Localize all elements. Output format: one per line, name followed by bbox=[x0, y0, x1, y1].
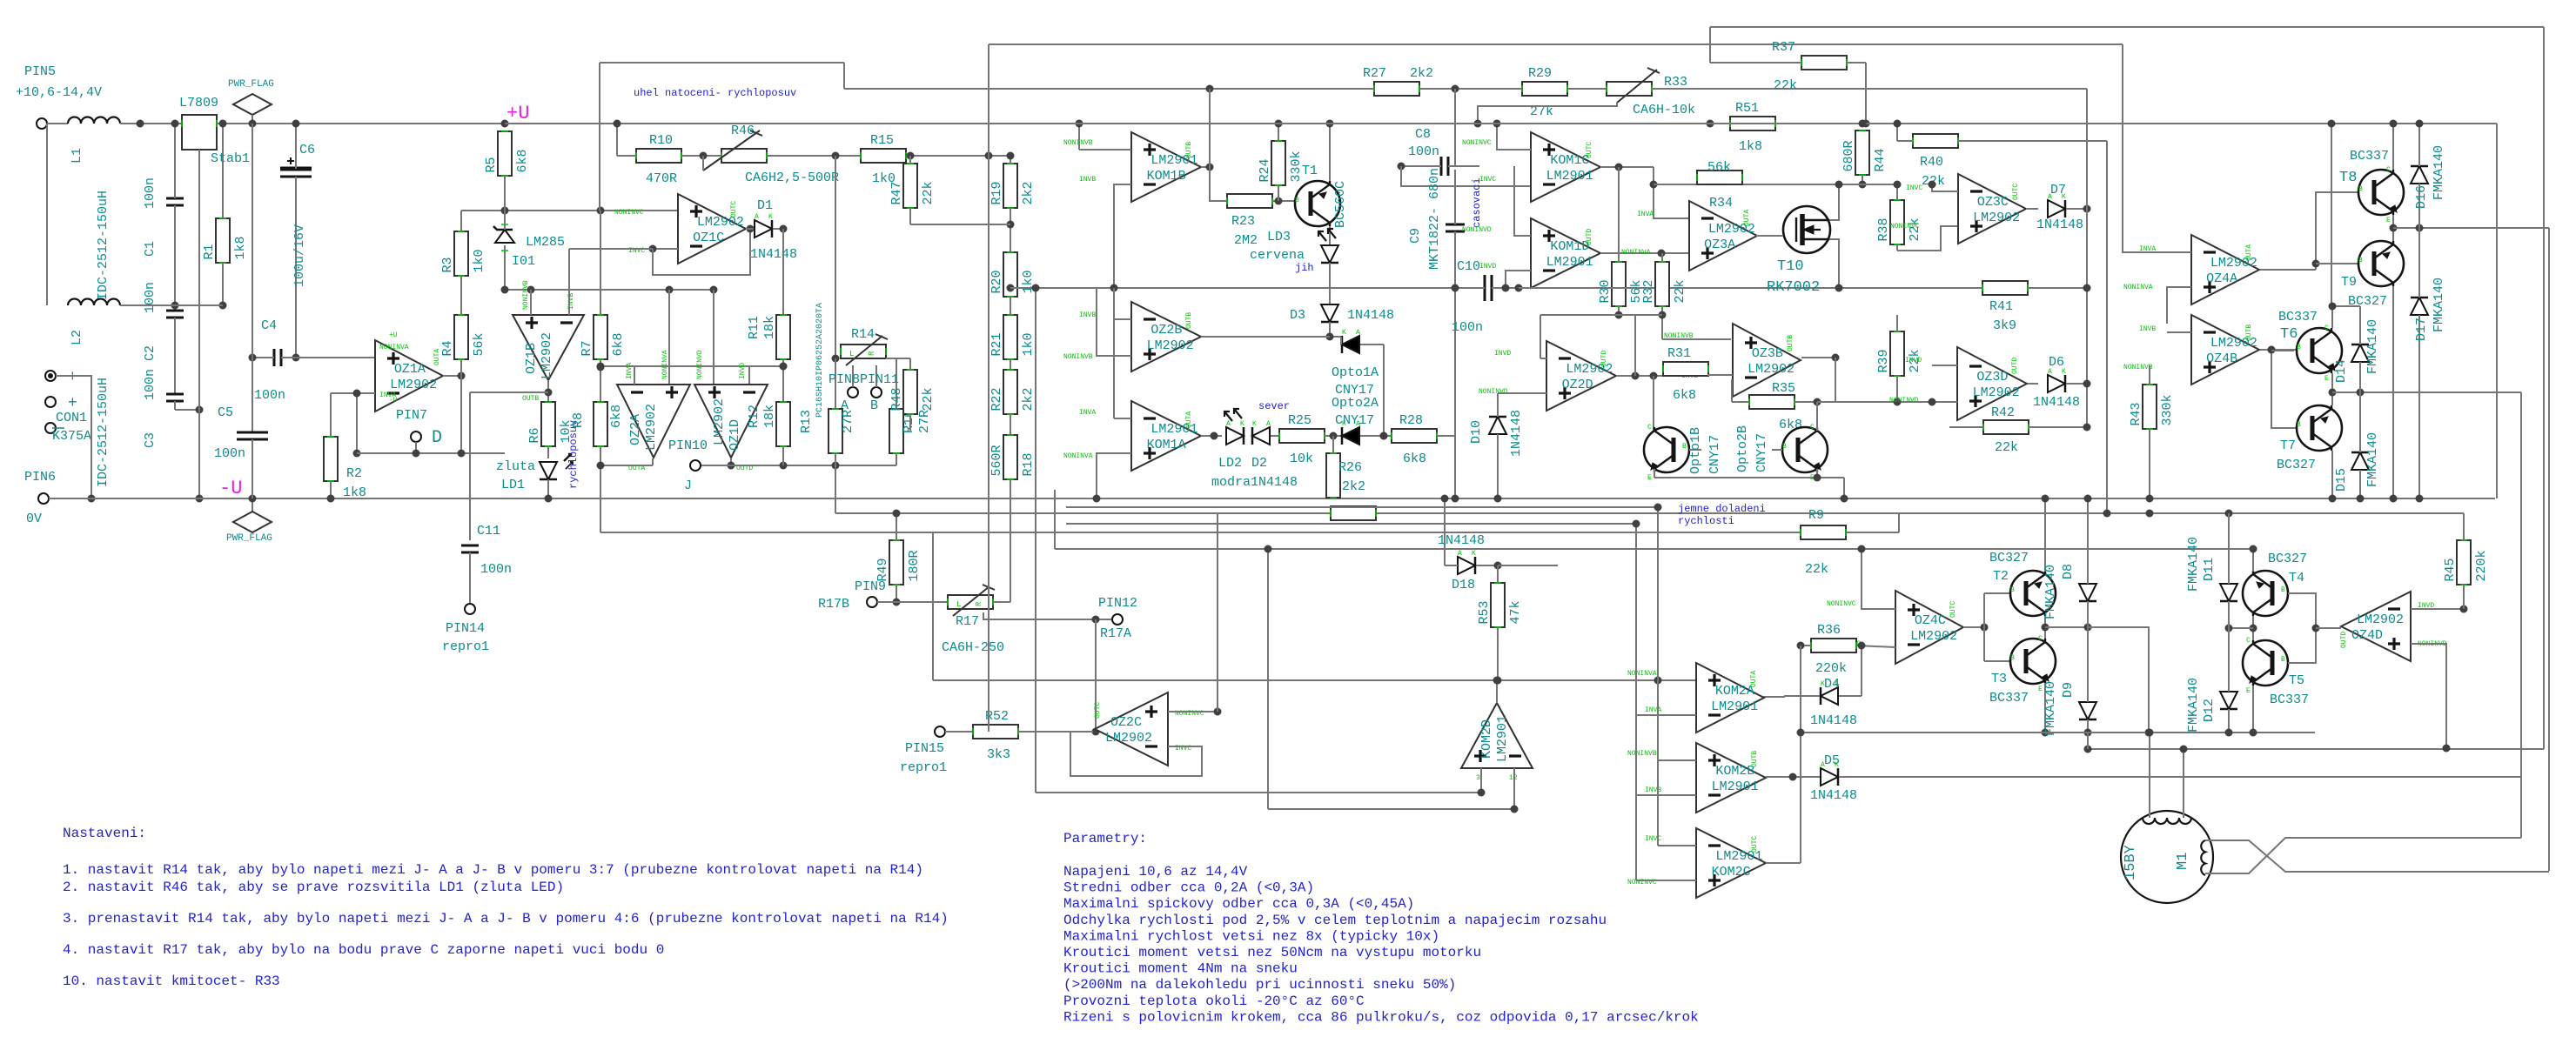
svg-text:B: B bbox=[2297, 421, 2301, 429]
resistor R1 bbox=[216, 218, 230, 263]
svg-text:1N4148: 1N4148 bbox=[1347, 308, 1394, 323]
diode D15 bbox=[2351, 452, 2369, 470]
svg-text:NONINVD: NONINVD bbox=[1889, 397, 1919, 405]
capacitor C8 bbox=[1440, 157, 1443, 176]
wire bbox=[2463, 608, 2465, 610]
wire bbox=[1480, 768, 1482, 793]
svg-text:RK7002: RK7002 bbox=[1767, 279, 1820, 296]
svg-text:LM2902: LM2902 bbox=[390, 378, 437, 392]
wire bbox=[120, 304, 175, 306]
svg-text:NONINVB: NONINVB bbox=[522, 280, 530, 310]
resistor R11 bbox=[776, 315, 790, 359]
svg-text:R31: R31 bbox=[1667, 346, 1691, 361]
svg-text:B: B bbox=[1295, 197, 1299, 204]
diode D2 bbox=[1252, 427, 1270, 445]
svg-text:R40: R40 bbox=[1920, 155, 1943, 170]
svg-text:56k: 56k bbox=[472, 332, 486, 356]
op-amp OZ1D bbox=[694, 385, 768, 458]
wire bbox=[1095, 619, 1097, 732]
svg-text:R15: R15 bbox=[870, 133, 894, 148]
svg-text:+: + bbox=[68, 395, 77, 412]
svg-text:INVB: INVB bbox=[1645, 786, 1661, 794]
wire bbox=[1329, 124, 1331, 181]
svg-text:LM2902: LM2902 bbox=[1147, 338, 1194, 353]
svg-text:R35: R35 bbox=[1772, 381, 1795, 396]
wire rail861 bbox=[2088, 748, 2544, 750]
svg-text:repro1: repro1 bbox=[442, 639, 489, 654]
wire bbox=[2288, 593, 2316, 663]
svg-text:100n: 100n bbox=[214, 446, 245, 461]
svg-text:R51: R51 bbox=[1735, 101, 1759, 116]
resistor R34 bbox=[1697, 171, 1742, 184]
svg-text:56k: 56k bbox=[1707, 160, 1731, 175]
wire rail51 bbox=[989, 43, 2123, 45]
svg-text:K: K bbox=[1342, 329, 1346, 337]
svg-text:LM2901: LM2901 bbox=[1712, 779, 1759, 794]
wire bbox=[1168, 711, 1218, 713]
diode Opto2A bbox=[1342, 427, 1359, 445]
svg-text:R38: R38 bbox=[1876, 217, 1891, 241]
svg-text:R24: R24 bbox=[1258, 158, 1272, 182]
svg-text:T6: T6 bbox=[2280, 326, 2298, 343]
svg-text:100n: 100n bbox=[1452, 320, 1483, 335]
svg-text:INVD: INVD bbox=[1494, 350, 1511, 358]
wire bbox=[1829, 184, 1839, 220]
wire bbox=[2087, 733, 2089, 749]
wire motor cross bbox=[2205, 840, 2549, 872]
wire row333 bbox=[505, 289, 714, 291]
resistor R9 bbox=[1801, 525, 1846, 539]
LED LD3 bbox=[1321, 245, 1338, 263]
svg-text:INVC: INVC bbox=[1906, 184, 1922, 192]
svg-text:PIN12: PIN12 bbox=[1098, 596, 1137, 611]
svg-text:E: E bbox=[2386, 217, 2391, 224]
svg-text:OUTB: OUTB bbox=[2245, 324, 2253, 341]
svg-text:cervena: cervena bbox=[1250, 248, 1305, 263]
wire OZ2C loop bbox=[1070, 732, 1202, 776]
resistor R32 bbox=[1655, 262, 1669, 306]
wire row911 bbox=[1036, 792, 1481, 793]
wire bbox=[469, 392, 471, 540]
resistor R19 bbox=[1003, 164, 1017, 208]
wire bbox=[832, 355, 840, 363]
svg-text:Odchylka rychlosti pod 2,5% v: Odchylka rychlosti pod 2,5% v celem tepl… bbox=[1063, 913, 1607, 928]
wire bbox=[1634, 315, 1636, 376]
svg-text:R: R bbox=[868, 351, 876, 356]
wire bbox=[1454, 436, 1456, 498]
svg-text:1N4148: 1N4148 bbox=[2036, 217, 2083, 232]
wire bbox=[896, 358, 910, 359]
svg-text:R1: R1 bbox=[202, 244, 217, 259]
svg-text:Opto2A: Opto2A bbox=[1332, 396, 1379, 411]
svg-text:T9: T9 bbox=[2341, 275, 2357, 290]
capacitor C6 bbox=[280, 167, 312, 171]
svg-text:C: C bbox=[1810, 424, 1815, 432]
wire bbox=[1209, 89, 1211, 167]
wire bbox=[56, 376, 91, 498]
wire bbox=[460, 376, 462, 453]
svg-text:R17B: R17B bbox=[818, 597, 849, 612]
wire row930 bbox=[1268, 808, 1514, 810]
op-amp OZ1A bbox=[375, 340, 443, 411]
wire wiper bbox=[983, 612, 1112, 619]
wire row212 bbox=[1654, 184, 1897, 185]
wire bbox=[1227, 200, 1272, 202]
svg-text:OZ1A: OZ1A bbox=[394, 362, 426, 377]
svg-text:D6: D6 bbox=[2049, 355, 2064, 370]
wire KOM1A out bbox=[1201, 435, 1222, 437]
wire KOM1C out bbox=[1600, 166, 1654, 168]
svg-text:BC337: BC337 bbox=[2350, 149, 2389, 164]
svg-text:22k: 22k bbox=[921, 387, 936, 411]
capacitor C2 bbox=[166, 310, 184, 312]
op-amp OZ1B bbox=[513, 315, 584, 380]
svg-text:INVC: INVC bbox=[1645, 835, 1661, 843]
wire bbox=[2044, 616, 2046, 639]
wire bbox=[1800, 646, 1801, 863]
transistor T6 BC337 bbox=[2297, 328, 2342, 373]
svg-text:sever: sever bbox=[1258, 400, 1290, 412]
svg-text:PIN9: PIN9 bbox=[855, 579, 886, 594]
wire rail 631 bbox=[1055, 548, 2254, 550]
svg-text:L: L bbox=[956, 600, 961, 609]
wire row451 bbox=[2332, 391, 2521, 393]
wire bbox=[1816, 427, 1818, 431]
wire bbox=[877, 601, 948, 603]
wire bbox=[46, 124, 48, 305]
svg-text:FMKA140: FMKA140 bbox=[2043, 681, 2058, 736]
wire OZ3C out bbox=[2026, 208, 2038, 210]
svg-text:B: B bbox=[2358, 185, 2363, 193]
svg-text:NONINVA: NONINVA bbox=[661, 350, 669, 379]
wire bbox=[599, 63, 600, 211]
svg-text:1N4148: 1N4148 bbox=[1810, 713, 1857, 728]
transistor T4 BC327 bbox=[2243, 571, 2288, 616]
resistor R12 bbox=[776, 402, 790, 446]
wire bbox=[993, 601, 1010, 603]
svg-text:R53: R53 bbox=[1477, 600, 1492, 624]
svg-text:LM2901: LM2901 bbox=[1711, 699, 1758, 714]
resistor R18 bbox=[1003, 435, 1017, 479]
wire bbox=[1654, 167, 1689, 218]
svg-text:6k8: 6k8 bbox=[611, 332, 626, 356]
svg-text:jemne doladeni: jemne doladeni bbox=[1678, 503, 1766, 515]
svg-text:100n: 100n bbox=[143, 177, 158, 209]
diode D17 bbox=[2411, 298, 2428, 315]
svg-text:Provozni teplota okoli -20°C a: Provozni teplota okoli -20°C az 60°C bbox=[1063, 994, 1365, 1009]
wire L7809 gnd bbox=[198, 150, 200, 410]
wire bbox=[120, 123, 182, 124]
svg-text:A: A bbox=[1458, 550, 1462, 558]
svg-text:10k: 10k bbox=[1290, 452, 1313, 466]
svg-text:R20: R20 bbox=[989, 270, 1004, 293]
resistor R40 bbox=[1913, 134, 1958, 148]
op-amp OZ1C bbox=[678, 194, 746, 264]
diode D16 bbox=[2411, 166, 2428, 184]
svg-text:1N4148: 1N4148 bbox=[1509, 410, 1524, 457]
wire bbox=[2167, 331, 2191, 333]
svg-text:BC560C: BC560C bbox=[1333, 181, 1348, 228]
diode D5 bbox=[1821, 768, 1838, 786]
svg-text:T1: T1 bbox=[1302, 164, 1318, 178]
svg-text:R22: R22 bbox=[989, 387, 1004, 411]
svg-text:NONINVC: NONINVC bbox=[1462, 139, 1492, 147]
svg-text:D2: D2 bbox=[1251, 456, 1267, 471]
svg-text:6k8: 6k8 bbox=[1673, 388, 1696, 403]
svg-text:FMKA140: FMKA140 bbox=[2043, 565, 2058, 619]
svg-text:R21: R21 bbox=[989, 332, 1004, 356]
wire loop row bbox=[357, 452, 505, 454]
svg-text:LM2902: LM2902 bbox=[1910, 629, 1957, 644]
svg-text:C: C bbox=[2386, 166, 2391, 174]
svg-text:CA6H2,5-500R: CA6H2,5-500R bbox=[745, 171, 839, 185]
svg-text:LD2: LD2 bbox=[1218, 456, 1242, 471]
wire bbox=[782, 229, 784, 315]
svg-text:180R: 180R bbox=[907, 550, 922, 581]
svg-text:NONINVA: NONINVA bbox=[1627, 670, 1657, 678]
wire bbox=[2411, 608, 2464, 610]
svg-text:NONINVB: NONINVB bbox=[1063, 353, 1093, 361]
wire bbox=[835, 358, 836, 409]
svg-text:C: C bbox=[1647, 424, 1652, 432]
svg-text:PIN11: PIN11 bbox=[860, 372, 899, 387]
resistor R8 bbox=[594, 402, 607, 446]
wire bbox=[1932, 401, 1957, 403]
svg-text:D18: D18 bbox=[1452, 578, 1475, 592]
capacitor C4 bbox=[273, 349, 276, 366]
resistor R28 bbox=[1392, 429, 1437, 443]
wire bbox=[1114, 184, 1131, 288]
svg-text:FMKA140: FMKA140 bbox=[2432, 278, 2446, 332]
svg-text:T10: T10 bbox=[1777, 258, 1804, 275]
svg-text:D17: D17 bbox=[2414, 318, 2429, 341]
node R17B bbox=[867, 597, 877, 607]
svg-text:LM2902: LM2902 bbox=[1973, 385, 2020, 400]
wire row421 bbox=[600, 365, 783, 367]
svg-text:10. nastavit kmitocet- R33: 10. nastavit kmitocet- R33 bbox=[63, 973, 280, 989]
wire bbox=[1114, 418, 1131, 419]
wire bbox=[668, 290, 670, 385]
svg-text:KOM2D: KOM2D bbox=[1479, 719, 1494, 759]
svg-text:T5: T5 bbox=[2289, 673, 2304, 688]
resistor R16 bbox=[889, 409, 903, 453]
wire rail331b bbox=[1519, 287, 2028, 289]
wire bbox=[2167, 287, 2191, 324]
wire bbox=[2271, 350, 2298, 428]
svg-text:T8: T8 bbox=[2339, 170, 2357, 186]
svg-text:R33: R33 bbox=[1664, 75, 1687, 90]
power flag PWR_FLAG top bbox=[233, 94, 272, 115]
svg-text:2k2: 2k2 bbox=[1021, 181, 1036, 204]
resistor unnamed bbox=[1331, 506, 1376, 520]
transistor T7 BC327 bbox=[2297, 405, 2342, 451]
svg-text:LM2901: LM2901 bbox=[1495, 715, 1510, 762]
wire KOM2B out bbox=[1766, 776, 1820, 778]
svg-text:C5: C5 bbox=[218, 405, 233, 420]
svg-text:2k2: 2k2 bbox=[1021, 387, 1036, 411]
svg-text:OUTC: OUTC bbox=[1949, 601, 1957, 618]
wire bbox=[252, 124, 253, 358]
svg-text:100n: 100n bbox=[480, 562, 512, 577]
svg-text:BC327: BC327 bbox=[2277, 458, 2316, 472]
resistor R31 bbox=[1663, 362, 1708, 376]
svg-text:CA6H-250: CA6H-250 bbox=[942, 640, 1004, 655]
svg-text:R8: R8 bbox=[571, 412, 586, 428]
svg-text:INVB: INVB bbox=[1079, 176, 1096, 184]
svg-text:+U: +U bbox=[389, 331, 398, 339]
node PIN15 bbox=[935, 726, 945, 737]
svg-text:BC327: BC327 bbox=[1989, 551, 2029, 565]
svg-text:PWR_FLAG: PWR_FLAG bbox=[228, 79, 274, 90]
LED LD1 bbox=[540, 462, 557, 479]
svg-text:27R: 27R bbox=[841, 410, 855, 433]
diode D18 bbox=[1458, 557, 1475, 574]
svg-text:OZ4A: OZ4A bbox=[2206, 271, 2237, 286]
svg-text:NONINVC: NONINVC bbox=[1890, 223, 1920, 231]
svg-text:C1: C1 bbox=[143, 241, 158, 257]
wire bbox=[2044, 498, 2046, 572]
wire OZ1C fb bbox=[653, 229, 750, 275]
svg-text:D7: D7 bbox=[2050, 183, 2066, 197]
svg-text:NONINVB: NONINVB bbox=[1627, 750, 1657, 758]
wire bbox=[2331, 306, 2333, 328]
svg-text:LM2901: LM2901 bbox=[1546, 169, 1593, 184]
wire KOM1D out bbox=[1600, 252, 1689, 254]
svg-text:CNY17: CNY17 bbox=[1707, 435, 1722, 474]
svg-text:R28: R28 bbox=[1399, 413, 1423, 428]
svg-text:OZ1C: OZ1C bbox=[693, 231, 724, 245]
svg-text:OUTD: OUTD bbox=[2011, 358, 2019, 374]
svg-text:zluta: zluta bbox=[496, 459, 535, 474]
svg-text:jih: jih bbox=[1295, 262, 1314, 274]
resistor R22 bbox=[1003, 370, 1017, 414]
svg-text:R13: R13 bbox=[799, 410, 814, 433]
svg-text:(>200Nm na dalekohledu pri uci: (>200Nm na dalekohledu pri ucinnosti sne… bbox=[1063, 977, 1456, 993]
svg-text:OZ2D: OZ2D bbox=[1562, 378, 1593, 392]
svg-text:OUTB: OUTB bbox=[1751, 751, 1759, 767]
LED LD2 bbox=[1226, 427, 1244, 445]
resistor R13 bbox=[828, 409, 842, 453]
svg-text:R17A: R17A bbox=[1100, 626, 1131, 641]
wire bbox=[2044, 683, 2046, 733]
resistor R42 bbox=[1983, 420, 2029, 434]
svg-text:OUTB: OUTB bbox=[1787, 335, 1794, 351]
wire bbox=[1380, 432, 1388, 440]
svg-text:L1: L1 bbox=[70, 148, 84, 164]
op-amp OZ3A bbox=[1689, 201, 1757, 271]
svg-text:LM2902: LM2902 bbox=[1105, 731, 1152, 746]
wire bbox=[1662, 338, 1731, 340]
transistor T2 BC327 bbox=[2010, 571, 2056, 616]
wire row549 bbox=[1654, 477, 1844, 478]
svg-text:C4: C4 bbox=[261, 318, 277, 333]
svg-text:Kroutici moment vetsi nez 50Nc: Kroutici moment vetsi nez 50Ncm na vystu… bbox=[1063, 945, 1481, 960]
diode D4 bbox=[1821, 687, 1838, 705]
wire bbox=[2331, 373, 2333, 405]
trimmer R33 bbox=[1607, 82, 1652, 96]
wire bbox=[1654, 469, 1655, 478]
wire bbox=[2123, 44, 2191, 252]
svg-text:CA6H-10k: CA6H-10k bbox=[1633, 103, 1695, 117]
svg-text:R9: R9 bbox=[1808, 508, 1824, 523]
wire bbox=[2252, 616, 2254, 640]
svg-text:22k: 22k bbox=[1995, 440, 2018, 455]
wire bbox=[1636, 714, 1696, 716]
wire bbox=[2252, 686, 2254, 733]
svg-text:12: 12 bbox=[1509, 774, 1518, 782]
svg-text:NONINVC: NONINVC bbox=[1827, 600, 1856, 608]
svg-text:1k0: 1k0 bbox=[1021, 332, 1036, 356]
wire bbox=[1658, 845, 1696, 846]
op-amp KOM1C bbox=[1531, 132, 1600, 202]
wire bbox=[1050, 123, 2497, 124]
svg-text:B: B bbox=[2010, 586, 2015, 594]
svg-text:casovaci: casovaci bbox=[1471, 177, 1483, 228]
svg-text:LM2902: LM2902 bbox=[644, 404, 659, 451]
wire OZ1A inv loop bbox=[357, 393, 375, 453]
resistor R21 bbox=[1003, 315, 1017, 359]
trimmer R46 bbox=[721, 149, 767, 163]
wire bbox=[1097, 453, 1131, 498]
wire bbox=[653, 248, 678, 250]
node bbox=[171, 302, 179, 310]
wire OZ2A out bbox=[652, 458, 654, 465]
svg-text:PIN15: PIN15 bbox=[905, 741, 944, 756]
wire bbox=[1454, 89, 1456, 166]
wire bbox=[530, 290, 532, 315]
resistor R47 bbox=[903, 164, 917, 208]
svg-text:T7: T7 bbox=[2280, 438, 2296, 453]
wire bbox=[1217, 513, 1218, 712]
svg-text:Stredni odber cca 0,2A (<0,3A): Stredni odber cca 0,2A (<0,3A) bbox=[1063, 880, 1314, 896]
wire bbox=[1097, 288, 1131, 356]
svg-text:C2: C2 bbox=[143, 345, 158, 361]
svg-text:D: D bbox=[432, 428, 442, 448]
wire OZ1A out bbox=[443, 375, 461, 377]
svg-text:I01: I01 bbox=[512, 254, 535, 269]
svg-text:18k: 18k bbox=[762, 316, 777, 339]
svg-text:R27: R27 bbox=[1363, 66, 1386, 81]
svg-text:1N4148: 1N4148 bbox=[1438, 533, 1485, 548]
wire OZ4C out bbox=[1963, 626, 1984, 628]
capacitor C1 bbox=[166, 197, 184, 200]
svg-text:INVA: INVA bbox=[1645, 706, 1661, 714]
wire bbox=[1201, 336, 1330, 338]
svg-text:B: B bbox=[2281, 586, 2285, 594]
svg-text:INVA: INVA bbox=[626, 363, 634, 379]
svg-text:OUTD: OUTD bbox=[1600, 351, 1608, 367]
wire bbox=[292, 354, 300, 362]
wire col2897 bbox=[2520, 392, 2522, 838]
capacitor C3 bbox=[166, 393, 184, 396]
wire rail 782 bbox=[933, 679, 1696, 681]
svg-text:22k: 22k bbox=[1774, 78, 1797, 93]
op-amp KOM1A bbox=[1131, 401, 1201, 471]
diode D8 bbox=[2079, 584, 2096, 601]
svg-text:R49: R49 bbox=[875, 558, 890, 581]
svg-text:D1: D1 bbox=[757, 198, 773, 213]
op-amp OZ4B bbox=[2191, 315, 2259, 385]
diode D6 bbox=[2048, 375, 2065, 392]
wire OZ4A out bbox=[2260, 269, 2316, 271]
svg-text:OZ2A: OZ2A bbox=[628, 414, 643, 445]
wire OZ2B out bbox=[1201, 336, 1341, 338]
svg-text:NONINVA: NONINVA bbox=[2123, 284, 2153, 291]
svg-text:OZ3D: OZ3D bbox=[1976, 370, 2008, 385]
node PIN7 bbox=[411, 432, 421, 442]
transistor T8 BC337 bbox=[2358, 170, 2404, 215]
svg-text:rychloposuv: rychloposuv bbox=[567, 420, 580, 489]
